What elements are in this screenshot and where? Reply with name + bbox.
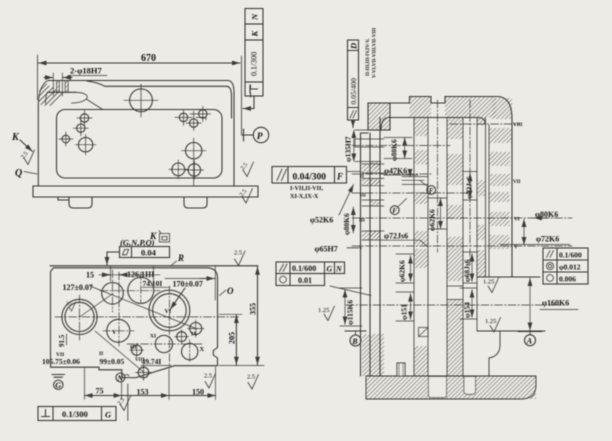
svg-text:XI-X,IX-X: XI-X,IX-X (290, 193, 319, 200)
svg-text:D: D (349, 43, 359, 50)
svg-text:O: O (227, 286, 234, 296)
svg-text:φ72Js6: φ72Js6 (384, 232, 408, 241)
svg-text:127±0.07: 127±0.07 (63, 283, 93, 292)
svg-text:I-VII,II-VII,: I-VII,II-VII, (290, 185, 323, 192)
bore I (140.8,290.4) (128, 277, 154, 303)
bore C2 (80, 114, 88, 122)
roughness 2.5 right upper (243, 162, 254, 177)
left wall hatches (370, 162, 380, 169)
frame parallel 0.1/600 G N (276, 262, 345, 274)
svg-text:B: B (351, 337, 358, 346)
svg-text:670: 670 (141, 53, 156, 64)
svg-text:0.04: 0.04 (141, 248, 157, 258)
svg-text:126.1III: 126.1III (127, 270, 154, 279)
flatness frame leader (107, 252, 120, 265)
inner face rounded rect (57, 110, 223, 179)
svg-text:99±0.05: 99±0.05 (100, 357, 125, 366)
frame leader (243, 96, 254, 109)
bore C1 big top (130, 89, 153, 112)
svg-text:F: F (336, 172, 343, 182)
inner cavity top edge (381, 118, 486, 131)
frame parallel 0.04/300 F (272, 167, 347, 184)
svg-text:49.74I: 49.74I (142, 357, 162, 366)
roughness 1.25 mid (488, 278, 499, 293)
flatness frame 0.04 (120, 247, 170, 258)
svg-text:0.01: 0.01 (298, 276, 312, 285)
svg-text:φ72K6: φ72K6 (536, 235, 559, 244)
svg-text:91.5: 91.5 (58, 334, 66, 347)
svg-text:V: V (112, 330, 117, 336)
svg-text:III: III (130, 345, 136, 351)
svg-text:G: G (105, 410, 112, 420)
leader to VI center (170, 288, 185, 309)
svg-text:1.25: 1.25 (483, 279, 494, 286)
bore X (189.7,351.6) (182, 343, 198, 359)
small step on flange (58, 197, 69, 200)
datum G target (52, 374, 65, 376)
svg-text:φ80K6: φ80K6 (390, 139, 399, 161)
svg-text:IX: IX (191, 332, 197, 338)
svg-text:355: 355 (249, 303, 258, 315)
svg-text:P: P (257, 132, 263, 142)
column 1 (414, 118, 428, 377)
svg-text:150: 150 (192, 388, 204, 397)
bore (163.9,344) (155, 335, 172, 352)
foot left (69, 197, 92, 208)
svg-text:1.25: 1.25 (318, 307, 329, 314)
diagonal centerlines (90, 286, 197, 329)
svg-text:74.10I: 74.10I (143, 279, 163, 288)
datum N target (116, 373, 125, 382)
boss beak profile (72, 92, 88, 103)
svg-text:φ80K6: φ80K6 (342, 213, 351, 235)
svg-text:F: F (429, 187, 434, 195)
svg-text:φ160K6: φ160K6 (542, 299, 569, 308)
svg-text:Q: Q (15, 168, 22, 179)
centerlines horizontal (450, 123, 520, 125)
svg-text:A: A (526, 337, 533, 346)
svg-text:153: 153 (137, 388, 149, 397)
svg-text:15: 15 (86, 271, 94, 280)
svg-text:φ154: φ154 (463, 302, 472, 318)
svg-text:0.1/600: 0.1/600 (292, 264, 316, 273)
vertical centerlines (79, 295, 81, 340)
hatched corner wedge (38, 81, 48, 104)
top-left corner block (368, 103, 390, 130)
svg-text:φ151: φ151 (400, 304, 409, 320)
roughness 1.25 left (324, 306, 335, 321)
body outline (37, 104, 39, 187)
svg-text:F: F (392, 207, 397, 215)
column 2 (447, 118, 463, 377)
svg-text:III: III (359, 219, 365, 224)
frame perp 0.1/300 G (38, 407, 116, 421)
roughness 2.5 left (24, 150, 35, 165)
roughness small in big bore (69, 302, 76, 311)
frame D vertical (348, 40, 359, 120)
svg-text:φ72Js6: φ72Js6 (465, 176, 474, 199)
top outer edge with bumps (368, 97, 512, 278)
datum target F1 (427, 186, 436, 195)
dim phi18 hole arrows (44, 77, 53, 79)
svg-text:VII: VII (513, 180, 521, 185)
svg-text:X: X (200, 346, 205, 353)
svg-text:75: 75 (96, 387, 104, 396)
rib B gap shoulder lines (447, 286, 463, 300)
svg-text:II: II (360, 175, 364, 180)
left wall verticals (360, 133, 362, 376)
right bottom outline (366, 376, 536, 399)
svg-text:φ65H7: φ65H7 (315, 245, 338, 254)
K-view outline (51, 268, 218, 378)
svg-text:φ68Js6: φ68Js6 (463, 259, 472, 282)
centerline main horizontal (55, 316, 240, 318)
svg-text:φ62K6: φ62K6 (398, 260, 407, 282)
bore C11 (188, 164, 200, 176)
bore C8 (190, 119, 198, 127)
svg-text:0.05/400: 0.05/400 (349, 78, 358, 105)
frame 0.1/300 cell (245, 40, 263, 82)
datum target F2 (390, 206, 399, 215)
svg-text:0.1/300: 0.1/300 (62, 409, 88, 419)
svg-text:V: V (359, 247, 363, 252)
svg-text:II-III,III-IV,IV-V,: II-III,III-IV,IV-V, (366, 38, 371, 76)
left wall bore lines (355, 139, 384, 147)
svg-text:N: N (250, 13, 260, 21)
frame D leader (352, 120, 354, 128)
dim 15 / 126.1 (99, 274, 160, 276)
svg-text:G: G (327, 264, 333, 273)
centerline bores I II (100, 290, 160, 292)
svg-text:φ0.012: φ0.012 (559, 263, 581, 272)
frame leader line (127, 384, 129, 421)
svg-text:V: V (514, 246, 518, 251)
frame K box (245, 24, 263, 40)
small bore bottom tab (143.5,372.5) (138, 367, 149, 378)
centerlines vertical (437, 100, 439, 252)
roughness 2.5 right lower (242, 189, 253, 204)
svg-text:V-VI,VII-VIII,VII-VIII: V-VI,VII-VIII,VII-VIII (373, 28, 378, 78)
bore C5 (78, 138, 92, 152)
svg-text:0.04/300: 0.04/300 (293, 173, 327, 183)
svg-text:1.25: 1.25 (485, 318, 496, 325)
svg-text:φ52K6: φ52K6 (310, 216, 333, 225)
right wall (488, 125, 490, 277)
svg-text:φ135H7: φ135H7 (344, 136, 353, 162)
datum A (518, 331, 542, 333)
dim 355 vertical (257, 267, 259, 365)
bore C7 (199, 110, 207, 118)
svg-text:G: G (55, 381, 61, 390)
bore C9 (186, 143, 202, 159)
svg-text:XI: XI (150, 334, 156, 340)
bore C3 (77, 124, 85, 132)
svg-text:φ115K6: φ115K6 (346, 300, 355, 325)
bore II (112.5,293.3) (102, 283, 124, 305)
bore VI big right double (149, 290, 190, 331)
roughness 2.5 bottom right a (205, 374, 216, 389)
roughness 1.25 lower (490, 318, 501, 333)
frame circ 0.01 (276, 274, 325, 286)
frame perpendicularity cell (245, 82, 263, 96)
svg-text:0.1/300: 0.1/300 (250, 52, 259, 76)
base flange (33, 186, 258, 197)
bore C4 (62, 135, 70, 143)
centerline bore row (163.9,344) (127, 343, 202, 345)
column 3 (477, 118, 486, 332)
svg-text:VI: VI (165, 309, 172, 315)
bore C6 (179, 113, 187, 121)
drain hole detail (397, 363, 405, 376)
svg-text:2.5: 2.5 (66, 302, 73, 307)
top bump hatches (410, 97, 432, 118)
roughness near leader (120, 396, 131, 411)
svg-text:0.1/600: 0.1/600 (559, 251, 582, 260)
bore C10 (172, 163, 185, 176)
dim 670 (39, 62, 241, 64)
phi160 bore faces (477, 276, 540, 278)
top-left boss with 2 holes (48, 80, 228, 82)
svg-text:170±0.07: 170±0.07 (173, 280, 203, 289)
svg-text:2.5: 2.5 (247, 374, 255, 381)
svg-text:VI: VI (514, 218, 520, 223)
svg-text:0.006: 0.006 (559, 275, 576, 284)
small dim arrow lines (410, 256, 412, 282)
svg-text:105.75±0.06: 105.75±0.06 (42, 357, 80, 366)
small bore (195.7,328.5) (190, 323, 202, 335)
frame leader to wall (330, 286, 371, 296)
K-view top extension line (50, 265, 258, 267)
svg-text:III: III (360, 194, 366, 199)
svg-text:K: K (11, 132, 20, 143)
svg-text:205: 205 (227, 332, 236, 344)
datum target P (243, 129, 245, 141)
svg-text:2.5: 2.5 (204, 373, 212, 380)
bore V (118.3,330.8) (107, 319, 130, 342)
roughness 2.5 bottom right b (248, 375, 259, 390)
frame stack right (543, 248, 588, 284)
connector between small bores (196, 117, 206, 120)
svg-text:2-φ18H7: 2-φ18H7 (70, 66, 102, 76)
svg-text:R: R (177, 253, 184, 263)
datum B (345, 330, 366, 332)
svg-text:2.5: 2.5 (234, 250, 242, 257)
svg-text:φ47K6: φ47K6 (384, 166, 407, 175)
small bore (136.7,350.2) (132, 345, 142, 355)
roughness 2.5 top right (235, 251, 246, 266)
centerline bore V (103, 330, 134, 332)
bottom dims 75 153 150 (84, 368, 86, 400)
svg-text:VIII: VIII (513, 123, 523, 128)
frame N box (245, 9, 263, 25)
dim 205 vertical (235, 315, 237, 365)
foot right (184, 197, 207, 208)
svg-text:φ62K6: φ62K6 (428, 209, 437, 231)
small bore (181.6,336.6) (177, 332, 187, 342)
bore VII big left double (62, 299, 97, 334)
